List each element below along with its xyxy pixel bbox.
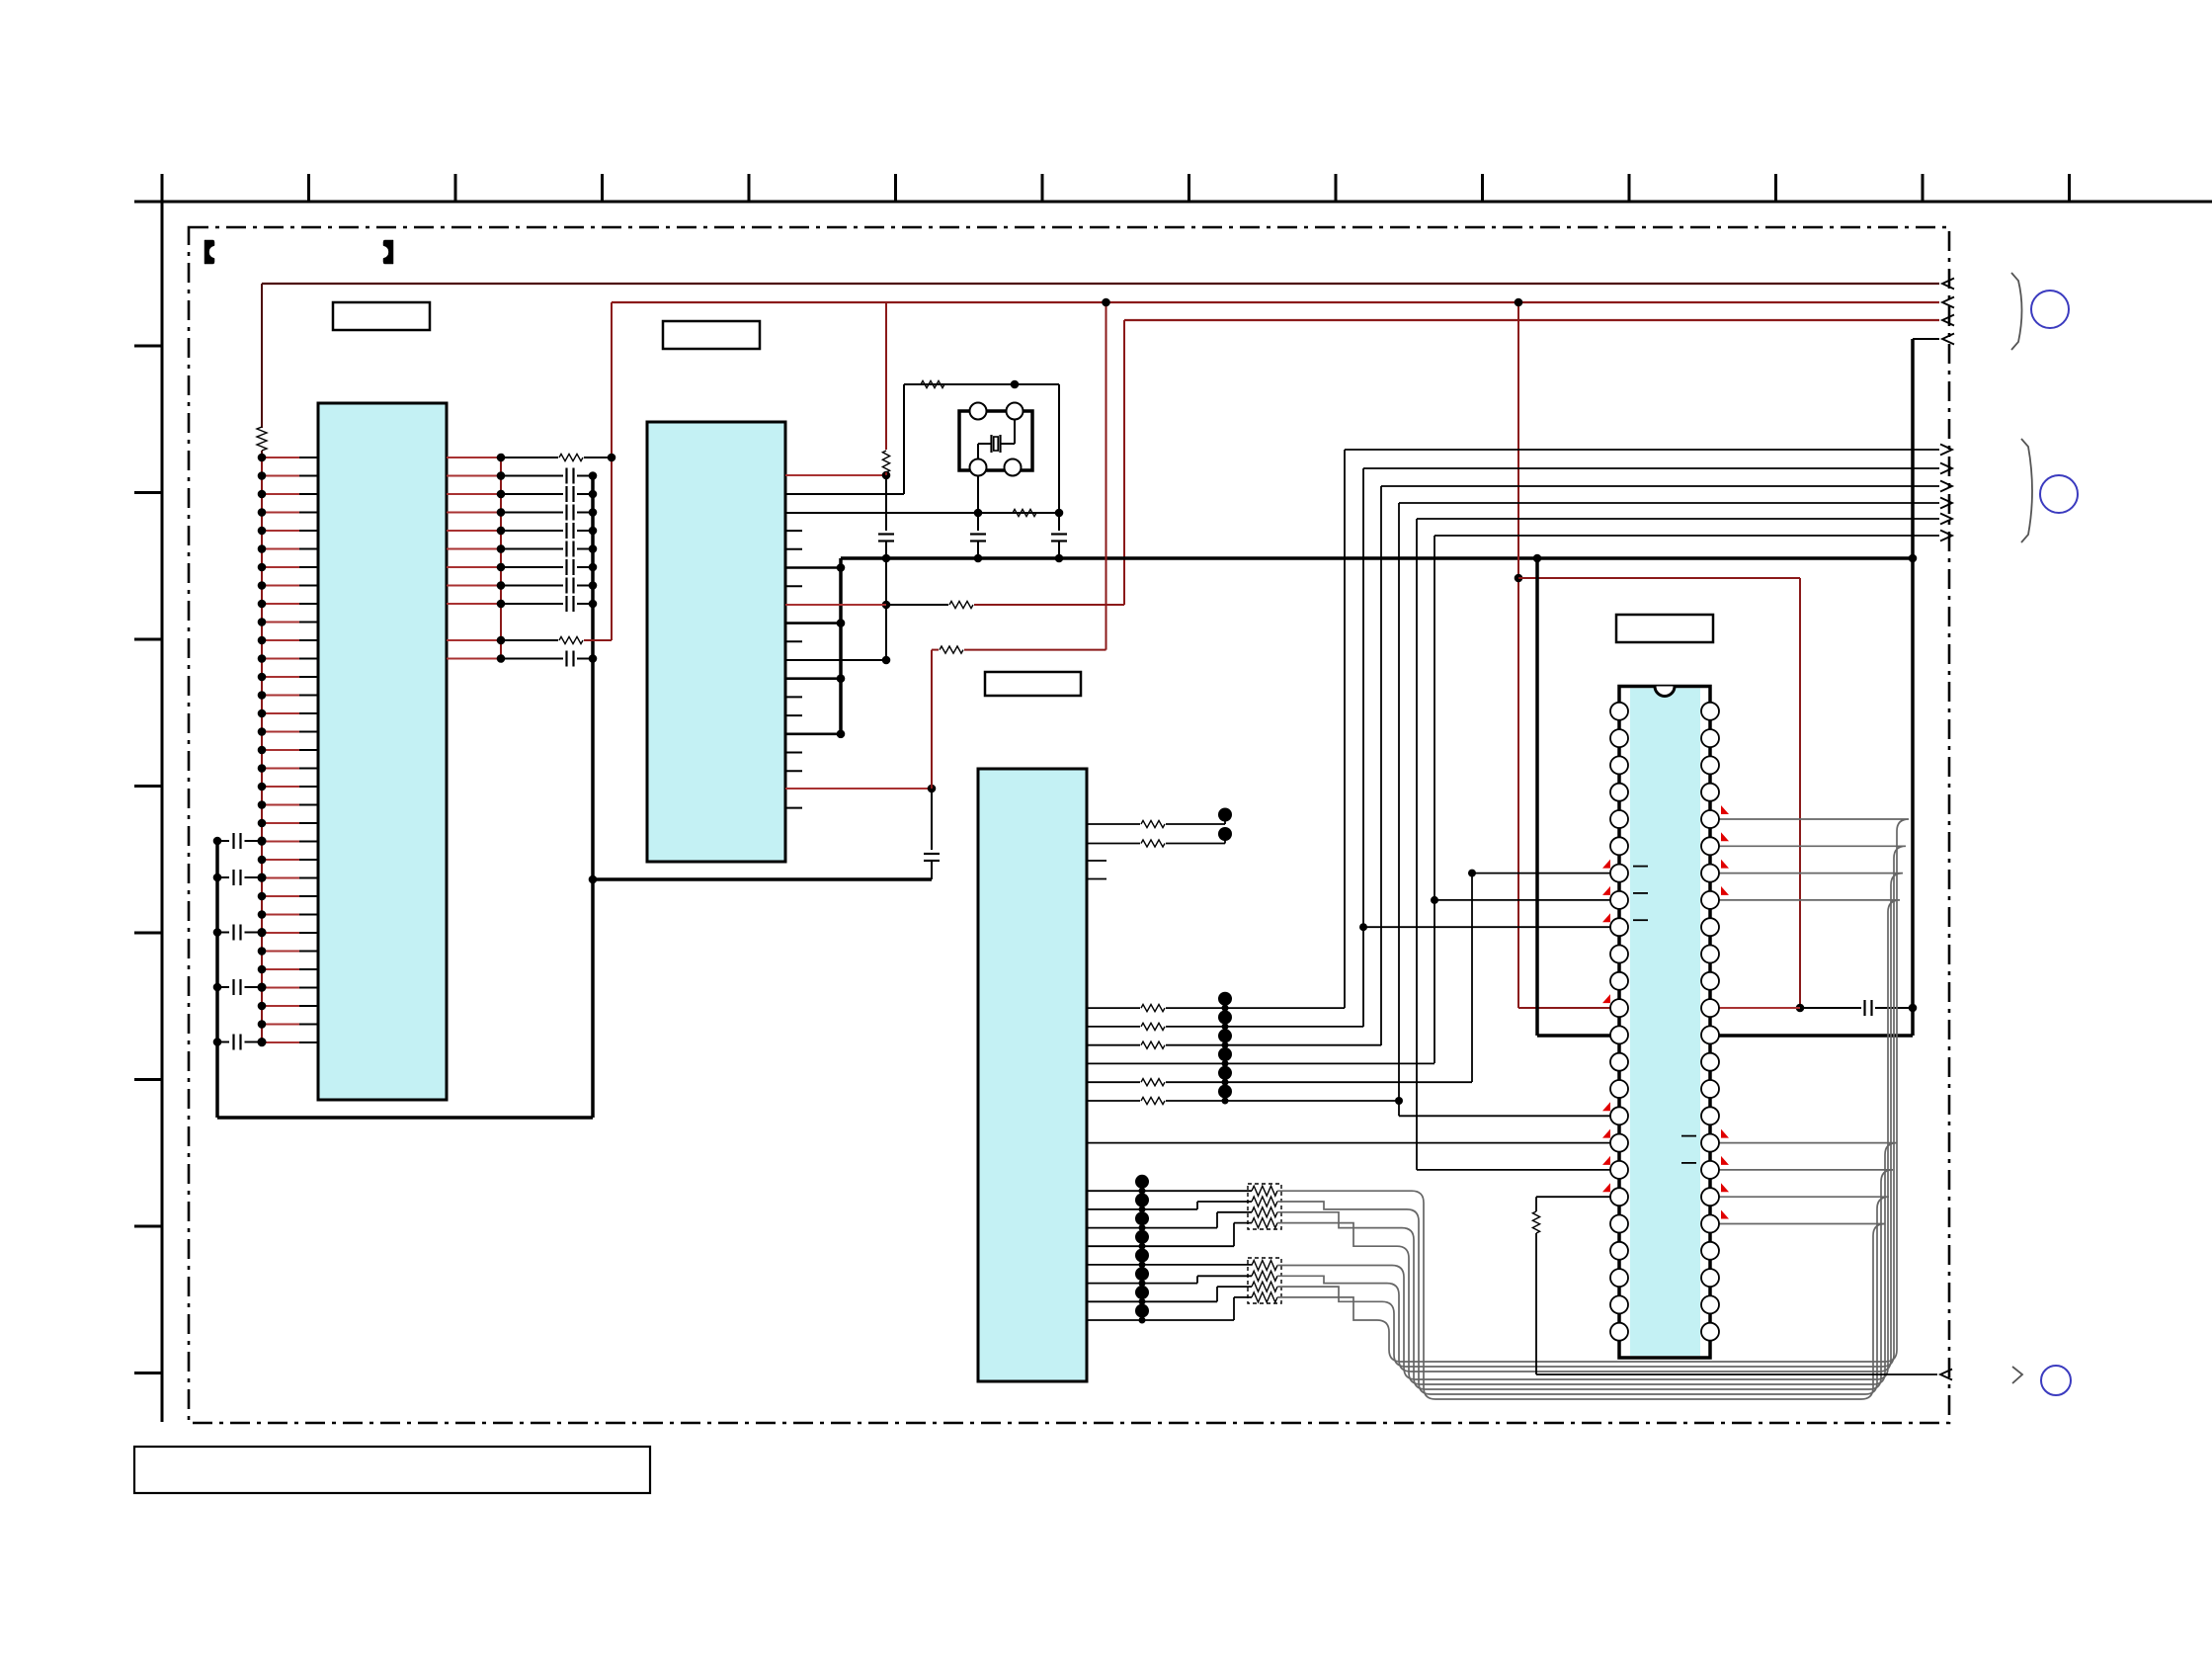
- IC U1 block: [318, 403, 447, 1100]
- junction gnd 1936: [1909, 554, 1918, 563]
- resistor pack box B: [1248, 1258, 1281, 1303]
- wire red x1822: [1799, 578, 1801, 1008]
- IC2 pin686 wire: [785, 677, 841, 680]
- corner bus600 top: [592, 475, 594, 477]
- DIP right pin flags: [1721, 805, 1729, 814]
- bracket-open glyph: [205, 240, 214, 264]
- wire x943 below: [931, 789, 933, 850]
- junction 990/519: [974, 509, 983, 518]
- bus IC1 left red: [261, 458, 263, 1042]
- bus gnd x851: [839, 558, 843, 734]
- DIP notch: [1655, 687, 1675, 697]
- ruler left ticks: [134, 345, 162, 348]
- resistor R2 row463: [559, 454, 583, 460]
- IC3 row834 wire: [1087, 823, 1140, 825]
- wire v5 x1434: [1416, 519, 1418, 1170]
- junction L2 x1119: [1102, 298, 1110, 307]
- junction v6 row911: [1431, 896, 1438, 904]
- junction v2 row938: [1359, 923, 1367, 931]
- wire x897 to pin: [885, 472, 887, 475]
- bypass caps IC1 left: [217, 840, 229, 842]
- resistor pack box A: [1248, 1184, 1281, 1229]
- junction x897 row612: [882, 601, 891, 610]
- DIP right pin circles: [1701, 703, 1719, 720]
- wire v4 jog to DIP: [1398, 1101, 1400, 1116]
- junction gnd 990: [974, 554, 983, 563]
- resistor R8 row657: [940, 646, 963, 653]
- wire xtal top: [904, 383, 1059, 385]
- IC2 pin574 wire: [785, 566, 841, 569]
- IC2 pin630 wire: [785, 622, 841, 624]
- IC1 right pin wires: [447, 457, 501, 458]
- wire loop x1555 lower: [1535, 1233, 1537, 1374]
- resistor R7 xtal: [921, 380, 944, 387]
- bus-entry dot column lower: [1139, 1188, 1146, 1195]
- wire xtal right vert: [1058, 384, 1060, 513]
- wire red y585: [1518, 577, 1800, 579]
- wire L1 vertical drop: [261, 284, 263, 428]
- bus gnd DIP row1048: [1537, 1034, 1913, 1038]
- connector bracket CN2: [2021, 439, 2032, 542]
- bus gnd x1936: [1911, 339, 1915, 1036]
- terminal dot row834: [1224, 815, 1226, 825]
- wire v7 x1490: [1471, 874, 1473, 1082]
- arrow L3: [1942, 315, 1954, 326]
- wire v2 x1380: [1362, 468, 1364, 1027]
- wire x897 lower: [885, 475, 887, 531]
- IC3 row853 wire: [1087, 843, 1140, 845]
- DIP left pin circles: [1610, 703, 1628, 720]
- xtal pad circle TR: [1007, 403, 1024, 420]
- label box IC2: [663, 321, 760, 349]
- wire v4 x1416: [1398, 503, 1400, 1101]
- wire DIP left row911: [1434, 899, 1619, 901]
- junction L2 x1537: [1515, 298, 1523, 307]
- crystal X1: [990, 435, 992, 453]
- wire DIP left row884: [1472, 873, 1619, 874]
- junction 1072/519: [1055, 509, 1064, 518]
- wire row657 left: [932, 649, 939, 651]
- wire row666 cap: [501, 658, 563, 660]
- wire loop x1555 upper: [1535, 1197, 1537, 1211]
- wire row648: [501, 639, 558, 641]
- resistors IC3 bus rows: [1141, 1005, 1165, 1012]
- wire R3 to corner: [584, 639, 612, 641]
- wire red DIP right row1020: [1710, 1007, 1800, 1009]
- terminal dot row853: [1224, 834, 1226, 844]
- series caps IC1 right rows: [501, 475, 563, 477]
- wire red x1537: [1517, 302, 1519, 1008]
- xtal pad circle BR: [1005, 459, 1022, 476]
- junction x1822 y1020: [1796, 1004, 1805, 1013]
- IC2 pin481 wire: [785, 474, 886, 476]
- IC U101 DIP body: [1619, 687, 1710, 1359]
- wire red x943: [931, 650, 933, 789]
- label box IC101 (DIP): [1616, 615, 1713, 642]
- IC2 unconnected pin stubs: [785, 530, 802, 532]
- DIP left pin flags: [1602, 860, 1610, 869]
- dash-dot board border: [189, 227, 1949, 1423]
- capacitor C5 row1020: [1863, 1000, 1865, 1016]
- junction v7 row884: [1468, 870, 1476, 877]
- resistor R3 row648: [559, 636, 583, 643]
- IC2 pin612 wire: [785, 604, 886, 606]
- wire red x897 upper: [885, 302, 887, 450]
- resistor R1 on L1: [257, 427, 267, 451]
- bus gnd left vertical: [215, 841, 219, 1118]
- junction v4 row1114: [1395, 1097, 1403, 1105]
- IC U2 block: [647, 422, 785, 862]
- wire row612 to x1138: [974, 604, 1124, 606]
- bus gnd bottom horizontal: [217, 1116, 593, 1120]
- IC3 bus rows to verticals: [1087, 1007, 1140, 1009]
- wire arrow row1391: [1536, 1373, 1937, 1375]
- xtal pad circle TL: [970, 403, 987, 420]
- capacitor C1 x897: [878, 533, 894, 535]
- wire red x1119 vert: [1106, 302, 1107, 650]
- wire row657 right: [964, 649, 1106, 651]
- wire row612 mid: [886, 604, 948, 606]
- IC3 lower rows to resistor packs: [1087, 1190, 1252, 1192]
- IC3 stub row871: [1087, 860, 1106, 862]
- IC1 left pin wires: [262, 457, 299, 458]
- ruler vertical line: [161, 174, 164, 1422]
- connector chevron CN3: [2012, 1367, 2022, 1383]
- resistor R6 row612: [949, 601, 973, 608]
- bus gnd x600: [591, 476, 595, 1119]
- capacitor C3: [1058, 513, 1060, 531]
- bus gnd y890: [593, 877, 932, 881]
- resistor R5 row519: [1013, 509, 1036, 516]
- bus wires to connector arrows: [1345, 449, 1939, 451]
- junction L2 row463: [608, 454, 616, 462]
- crystal module box: [959, 411, 1032, 470]
- wire x897 below cap: [885, 541, 887, 661]
- title box bottom-left: [134, 1447, 650, 1493]
- wire L1 to pin bus: [261, 451, 263, 458]
- junction x1537 y585: [1515, 574, 1523, 583]
- connector circle CN1: [2031, 291, 2069, 328]
- wire DIP left row1157: [1087, 1142, 1619, 1144]
- connector circle CN2: [2040, 475, 2078, 513]
- label box IC3: [985, 672, 1081, 696]
- IC U3 block: [978, 769, 1087, 1381]
- wire xtal left vert: [903, 384, 905, 494]
- gray wires IC3 to bottom bundle left: [1277, 1191, 1435, 1399]
- arrow L1: [1942, 279, 1954, 290]
- IC2 pin798 wire: [785, 788, 932, 790]
- IC2 pin500 wire: [785, 493, 904, 495]
- IC2 pin668 wire: [785, 659, 886, 661]
- junction dot row666 bus600: [589, 654, 598, 663]
- wire xtal int left: [978, 443, 992, 445]
- wire xtal int right: [1014, 411, 1016, 444]
- resistor R9: [1141, 820, 1165, 827]
- junction x897 gnd bus: [882, 554, 891, 563]
- arrow L2: [1942, 297, 1954, 308]
- wire arrow row343: [1913, 338, 1939, 340]
- wire L2 horizontal: [612, 301, 1939, 303]
- arrow row343: [1942, 334, 1954, 345]
- resistor R12 loop: [1532, 1211, 1539, 1233]
- junction gnd 1072: [1055, 554, 1064, 563]
- bracket-close glyph: [383, 240, 393, 264]
- wire VDD L1 horizontal: [262, 283, 1939, 285]
- ruler horizontal line: [134, 201, 2212, 204]
- resistor R10: [1141, 840, 1165, 847]
- wire row463 to R: [501, 457, 558, 458]
- wire R to node619: [584, 457, 612, 458]
- bus gnd y565: [841, 556, 1913, 560]
- junction x1936 y1020: [1909, 1004, 1918, 1013]
- wire cap to x1936: [1875, 1007, 1913, 1009]
- junction xtal top: [1011, 380, 1020, 389]
- wire L2 vertical x619: [611, 302, 613, 640]
- connector bracket CN1: [2011, 273, 2022, 350]
- capacitor C4 x943: [924, 853, 940, 855]
- wire L3 vertical x1138: [1123, 320, 1125, 605]
- connector circle CN3: [2041, 1366, 2071, 1395]
- wire v6 x1452: [1434, 536, 1435, 1063]
- label box IC1: [333, 302, 430, 330]
- junction gnd 1556: [1533, 554, 1542, 563]
- wire x943 to gnd corner: [931, 861, 933, 879]
- IC2 pin519 wire: [785, 512, 1059, 514]
- junction gnd-890 x600: [589, 875, 598, 884]
- bus-entry dot column upper: [1222, 1005, 1229, 1012]
- bus IC1 right red: [500, 458, 502, 659]
- xtal pad circle BL: [970, 459, 987, 476]
- IC U101 cyan fill: [1630, 689, 1700, 1357]
- gray wires bottom bundle to DIP right: [1435, 1224, 1885, 1400]
- wire L3 horizontal: [1124, 319, 1939, 321]
- wire v1 x1361: [1344, 450, 1346, 1008]
- DIP internal tick marks: [1633, 866, 1648, 868]
- wire DIP left row1211 to loop: [1536, 1196, 1619, 1198]
- wire v3 x1398: [1380, 486, 1382, 1045]
- ruler top ticks: [161, 174, 164, 202]
- bus gnd x1556: [1535, 558, 1539, 1036]
- resistor R4 x897: [882, 451, 889, 472]
- arrow row1391: [1940, 1370, 1952, 1380]
- wire DIP left row938: [1363, 926, 1619, 928]
- wire row1020 to cap: [1800, 1007, 1861, 1009]
- IC2 pin742 wire: [785, 732, 841, 735]
- wire red DIP left row1020: [1518, 1007, 1619, 1009]
- wire xtal BL down: [977, 476, 979, 514]
- IC3 stub row889: [1087, 878, 1106, 880]
- resistor network packs: [1252, 1186, 1277, 1196]
- capacitor C2: [977, 513, 979, 531]
